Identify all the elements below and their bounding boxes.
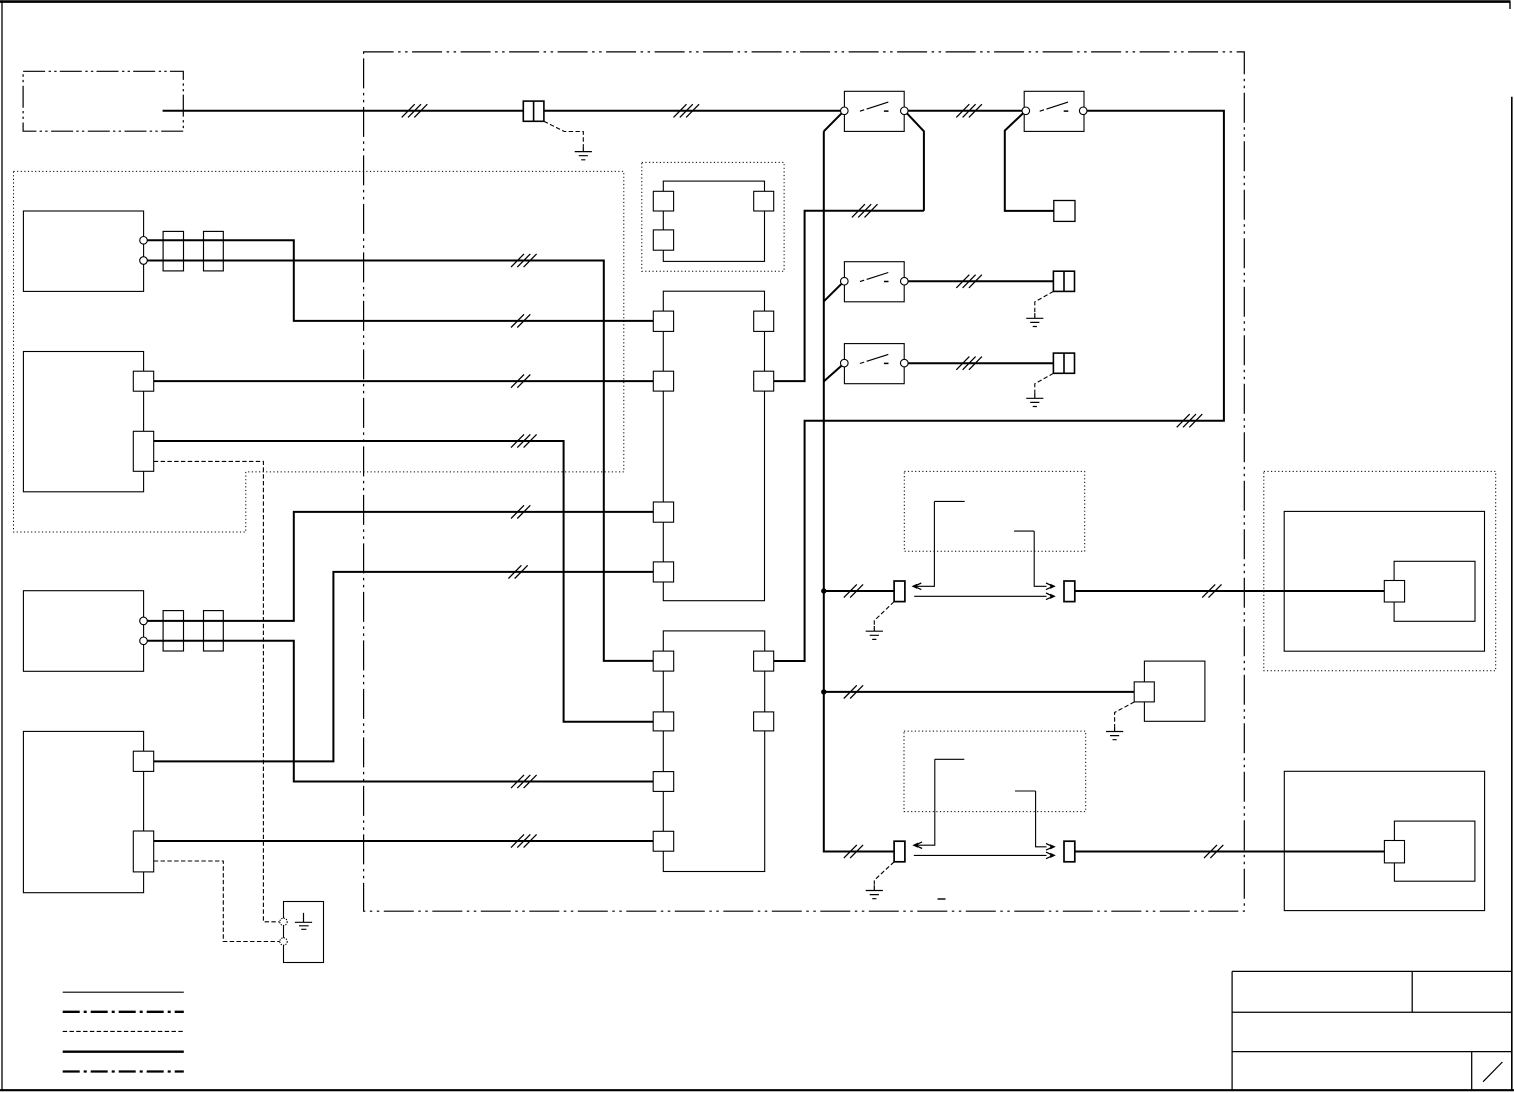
pin J3-L4 (653, 831, 674, 851)
wire unit4 pin2 (154, 840, 653, 842)
pin TX1-R (1064, 581, 1075, 602)
in-line connector pair unit1 b (204, 231, 224, 271)
signal line TX2 transmit a (1015, 791, 1047, 847)
wire TX2 right pin to unit M2 (1075, 851, 1385, 853)
terminal unit1-2 (140, 257, 148, 265)
crossover slashes TX1 right (1202, 584, 1221, 597)
wire unit1 terminal1 to connector row1 (147, 240, 653, 321)
stray mark (938, 898, 946, 900)
wire unit3 terminal2 (147, 641, 653, 782)
ground G4 (866, 626, 883, 639)
pin TX2-L (894, 841, 905, 862)
switch SW5 (844, 262, 904, 302)
pin J3-R1 (754, 651, 774, 671)
pin unit4-2 (tall) (133, 831, 153, 872)
signal line TX1 receive (914, 501, 965, 586)
ground G1 (575, 146, 592, 159)
pin unit2-2 (tall) (133, 431, 153, 471)
crossover slashes SW6 out (956, 357, 982, 370)
terminal unit3-1 (140, 617, 148, 625)
pin TX2-R (1064, 841, 1075, 862)
wire SW2 right to node B1 (774, 111, 1224, 661)
dashed lead M3 to ground (1115, 702, 1135, 726)
terminal ground block 1 (280, 918, 287, 925)
legend line dashed thin (63, 1030, 184, 1032)
chain-line box battery (top-left) (23, 71, 183, 131)
wire unit2 pin2 (154, 441, 653, 722)
pin unit2-1 (133, 371, 153, 391)
ground block box (284, 902, 324, 963)
signal line TX1 transmit a (1014, 531, 1046, 586)
legend line chain thick 2 (63, 1070, 184, 1072)
pin unit4-1 (133, 751, 153, 771)
signal line TX1 transmit b (914, 595, 1046, 597)
signal line TX2 transmit b (914, 854, 1047, 856)
fuse F1 (523, 101, 544, 121)
wire SW1 to SW2 (908, 110, 1022, 112)
chain-line box main harness boundary (364, 52, 1245, 911)
pin J3-L1 (653, 651, 674, 671)
crossover slashes row4 (508, 565, 527, 578)
title block (1232, 971, 1512, 1090)
dashed lead TX1 to ground (874, 602, 894, 626)
dashed lead TX2 to ground (874, 862, 894, 886)
page border bottom (0, 1089, 1514, 1091)
pin unit M1 (1384, 581, 1404, 603)
pin J2-L1 (653, 311, 673, 331)
crossover slashes node B2 (852, 204, 878, 217)
terminal box after SW2 (1054, 201, 1075, 222)
connector block J2 (upper tall) (663, 291, 764, 601)
wire bus A branch to module M3 (824, 691, 1135, 693)
pin J2-L3 (653, 502, 673, 522)
pin J3-L2 (653, 712, 674, 731)
wire SW1 right diagonal (907, 113, 924, 211)
wire bus A vertical (824, 131, 894, 851)
junction node bus A / M3 (821, 689, 826, 694)
ground G3 (1026, 393, 1043, 406)
dotted box around connector J1 (642, 162, 784, 271)
connector J1 (floating) (663, 181, 764, 261)
pin J3-L3 (653, 772, 674, 792)
switch SW6 (844, 344, 904, 384)
page border top-right tick (1509, 2, 1511, 9)
component unit1 (top-left sensor) (23, 211, 143, 291)
wire SW2 left diagonal to fuse box (1005, 113, 1054, 211)
unit M1 inner box (1394, 561, 1475, 621)
pin J2-R2 (754, 371, 774, 391)
crossover slashes M3 feed (844, 685, 863, 698)
ground G2 (1026, 313, 1043, 326)
page border top (0, 0, 1511, 3)
terminal unit1-1 (140, 237, 148, 245)
component unit2 (left module) (23, 352, 143, 492)
in-line connector pair unit1 a (163, 231, 183, 271)
terminal unit3-2 (140, 637, 148, 645)
crossover slashes TX1 left (844, 584, 863, 597)
wire unit1 terminal2 long run (147, 261, 653, 661)
dotted boundary region left components (14, 171, 624, 532)
wire unit2 pin1 (154, 380, 653, 382)
crossover slashes unit2-p1 (511, 375, 530, 388)
terminal ground block 2 (280, 938, 287, 945)
wire bus A branch to transceiver TX1 (824, 590, 894, 592)
wire unit3 terminal1 (147, 512, 653, 621)
pin J3-R2 (754, 712, 774, 731)
component unit3 (sensor) (23, 591, 143, 672)
connector block J3 (lower tall) (663, 631, 764, 872)
dashed lead C6 to ground (1035, 373, 1054, 393)
crossover slashes SW5 out (956, 275, 982, 288)
wire unit4 pin1 (154, 572, 653, 762)
component unit4 (left module lower) (23, 731, 143, 892)
wire TX1 right pin to unit M1 (1075, 590, 1385, 592)
in-line connector pair unit3 b (204, 611, 224, 651)
pin J2-R1 (754, 311, 774, 331)
pin J1-L1 (653, 191, 673, 211)
dashed lead unit2 shield to ground block (154, 461, 280, 921)
signal line TX2 receive (915, 759, 964, 845)
dashed lead unit4 shield to ground block (154, 861, 280, 942)
dotted box relay K2 (lower) (904, 731, 1086, 812)
switch SW1 (844, 91, 904, 131)
legend line solid thin (63, 991, 184, 993)
unit M1 outer box (1284, 511, 1484, 651)
legend line solid thick (63, 1051, 184, 1053)
dotted box around unit M1 (right) (1264, 471, 1496, 670)
wire battery feed to switch SW1 (163, 110, 841, 112)
page border right (1511, 97, 1513, 1091)
ground G5 (866, 885, 883, 898)
crossover slashes TX2 left (844, 845, 863, 858)
pin J1-L2 (653, 230, 673, 250)
wire SW6 branch diagonal (824, 365, 842, 381)
crossover slashes row3 (511, 505, 530, 518)
crossover slashes row1 (511, 314, 530, 327)
ground G6 (1106, 726, 1123, 739)
dashed lead C5 to ground (1035, 291, 1054, 313)
junction node bus A / TX1 (821, 588, 826, 593)
ground symbol inside ground block (295, 913, 312, 929)
crossover slashes unit2-p2 (511, 434, 537, 447)
crossover slashes w2 (956, 104, 982, 117)
wire SW5 branch diagonal (824, 283, 842, 301)
wire SW6 output to connector C6 (908, 362, 1053, 364)
connector C6 (1053, 353, 1074, 373)
crossover slashes w1a (402, 104, 428, 117)
crossover slashes unit3-t2 (511, 775, 537, 788)
title block diagonal (1483, 1062, 1502, 1082)
wire SW1 left diagonal to bus A (824, 113, 842, 131)
unit M2 inner box (1394, 821, 1475, 881)
in-line connector pair unit3 a (163, 611, 183, 651)
dotted box relay K1 (upper) (904, 471, 1084, 551)
switch SW2 (1024, 91, 1084, 131)
wire node B2 run (774, 211, 924, 381)
pin J1-R1 (754, 191, 774, 211)
crossover slashes TX2 right (1204, 845, 1223, 858)
pin M3 (1134, 682, 1154, 702)
module M3 box (1144, 661, 1205, 721)
crossover slashes node B1 (1177, 414, 1203, 427)
pin TX1-L (894, 581, 905, 602)
page border left (1, 0, 3, 1090)
crossover slashes unit4-p2 (511, 834, 537, 847)
dashed lead fuse F1 to ground (544, 121, 583, 146)
pin J2-L4 (653, 562, 673, 582)
crossover slashes unit1-t2 (511, 254, 537, 267)
crossover slashes w1b (674, 104, 700, 117)
connector C5 (1053, 271, 1074, 291)
wire SW5 output to connector C5 (908, 280, 1053, 282)
pin J2-L2 (653, 371, 673, 391)
legend line chain thick (63, 1011, 184, 1013)
unit M2 outer box (1284, 771, 1484, 910)
pin unit M2 (1384, 841, 1404, 863)
